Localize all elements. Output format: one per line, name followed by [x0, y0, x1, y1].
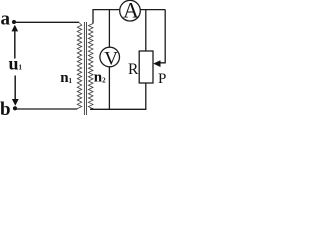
node a	[12, 20, 16, 24]
svg-text:u1: u1	[9, 54, 23, 74]
resistor R	[139, 51, 153, 83]
svg-text:P: P	[158, 71, 166, 87]
svg-text:b: b	[0, 99, 11, 120]
svg-text:n2: n2	[94, 70, 106, 86]
svg-text:n1: n1	[60, 70, 72, 86]
ammeter A1	[120, 0, 141, 21]
voltage arrow u1 down head	[12, 76, 19, 106]
wire	[15, 108, 77, 110]
wire resistor top lead	[145, 10, 147, 51]
voltmeter V1	[100, 47, 120, 67]
transformer core	[84, 22, 86, 115]
potentiometer wiper P	[153, 10, 165, 67]
wire	[14, 21, 79, 23]
wire resistor bottom lead	[145, 83, 147, 109]
svg-text:a: a	[1, 9, 11, 30]
svg-text:A: A	[123, 0, 139, 23]
voltage arrow u1 up head	[12, 25, 19, 59]
wire voltmeter top lead	[108, 10, 110, 48]
secondary winding n2	[88, 24, 93, 109]
wire bottom rail	[90, 108, 146, 110]
wire secondary top riser	[93, 10, 119, 24]
node b	[13, 106, 17, 110]
primary winding n1	[77, 23, 81, 109]
wire voltmeter bottom lead	[108, 67, 110, 109]
svg-text:R: R	[128, 61, 139, 78]
svg-text:V: V	[104, 48, 118, 69]
wire	[141, 9, 166, 11]
